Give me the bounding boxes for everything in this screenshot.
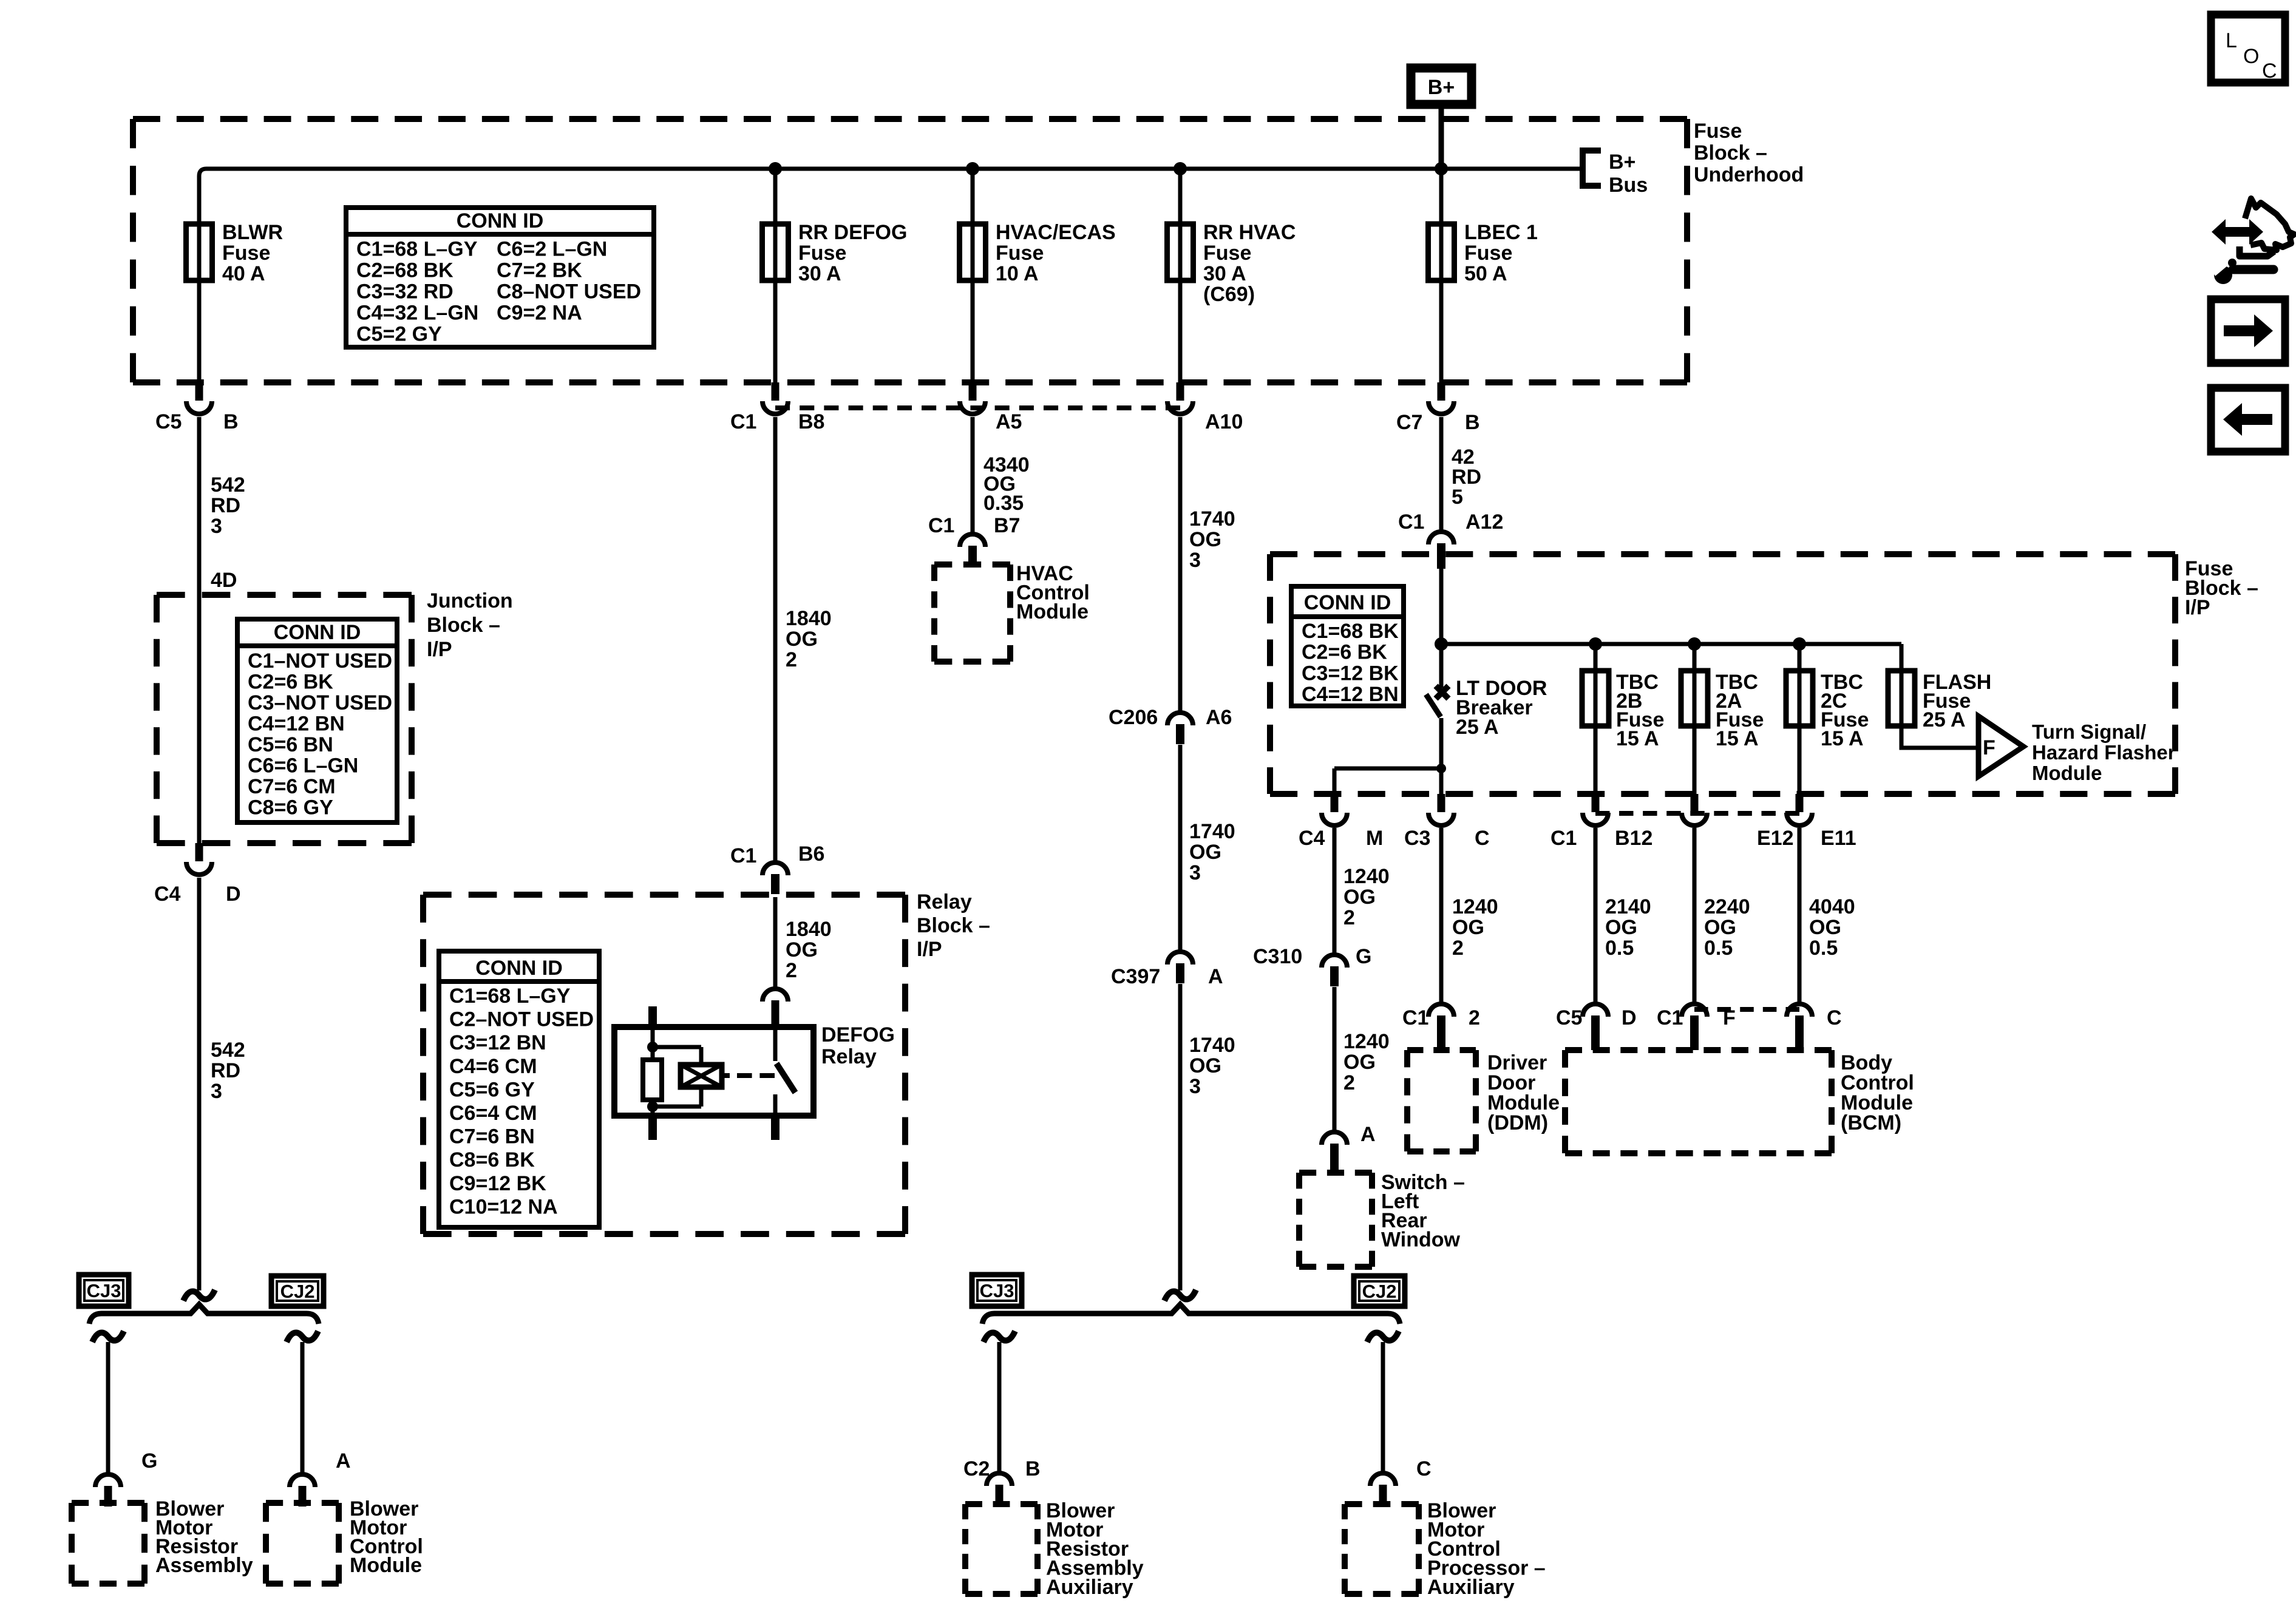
svg-text:CJ3: CJ3 — [980, 1280, 1014, 1301]
B+ bus line — [199, 169, 1580, 226]
svg-text:CONN ID: CONN ID — [457, 209, 544, 232]
svg-text:CONN ID: CONN ID — [274, 621, 361, 644]
svg-text:1240: 1240 — [1343, 1030, 1390, 1053]
svg-text:542: 542 — [211, 1039, 245, 1062]
svg-text:C: C — [1416, 1457, 1432, 1480]
wire 542 RD to splice — [197, 878, 202, 1290]
back arrow box (right margin) — [2211, 388, 2285, 452]
svg-text:D: D — [1622, 1006, 1637, 1029]
svg-text:A: A — [1360, 1123, 1376, 1146]
svg-text:OG: OG — [1704, 916, 1736, 939]
svg-text:542: 542 — [211, 473, 245, 497]
wire 2140 OG to BCM C5/D — [1594, 828, 1598, 1002]
svg-text:C1–NOT USED: C1–NOT USED — [248, 649, 392, 673]
connector C7/B at LBEC — [1428, 382, 1454, 414]
connector at DEFOG relay coil pin — [763, 989, 788, 1027]
svg-text:C: C — [1827, 1006, 1842, 1029]
svg-text:2: 2 — [1469, 1006, 1480, 1029]
svg-text:A5: A5 — [996, 410, 1022, 433]
svg-text:C5=2 GY: C5=2 GY — [356, 323, 442, 346]
CJ3 junction box (right splice) — [972, 1275, 1022, 1306]
wire 542 RD from C5/B to junction block — [197, 417, 202, 845]
svg-text:CJ3: CJ3 — [87, 1280, 121, 1301]
feed line inside I/P block — [1441, 642, 1901, 646]
svg-text:CJ2: CJ2 — [1362, 1281, 1397, 1302]
svg-text:B: B — [1465, 411, 1480, 434]
wire A12 into block — [1439, 564, 1444, 688]
svg-text:0.5: 0.5 — [1809, 937, 1838, 960]
FLASH fuse 25 A — [1901, 644, 1978, 748]
connector C1/B8 at RR DEFOG — [763, 382, 788, 414]
svg-text:C3: C3 — [1404, 827, 1430, 850]
svg-text:(DDM): (DDM) — [1487, 1111, 1548, 1134]
fuse BLWR 40 A — [186, 224, 212, 280]
CONN ID table - relay block — [439, 951, 599, 1227]
svg-text:OG: OG — [786, 938, 818, 961]
svg-text:5: 5 — [1452, 486, 1463, 509]
svg-text:Turn Signal/: Turn Signal/ — [2032, 720, 2146, 743]
svg-text:OG: OG — [1343, 886, 1376, 909]
svg-text:C5=6 GY: C5=6 GY — [449, 1078, 535, 1101]
svg-text:2240: 2240 — [1704, 895, 1750, 918]
svg-text:B+: B+ — [1428, 76, 1455, 99]
splice brace (right) — [982, 1304, 1400, 1324]
wire 1740 OG from A10 to C206 — [1178, 417, 1183, 711]
relay coil (box with X) — [681, 1065, 722, 1087]
svg-text:C7=6 BN: C7=6 BN — [449, 1125, 535, 1148]
svg-text:3: 3 — [1189, 549, 1201, 572]
wire fuse column — [1178, 169, 1183, 384]
fuse HVAC/ECAS 10 A — [960, 224, 986, 280]
svg-text:Block –: Block – — [427, 614, 500, 637]
connector C1/B12 below I/P block — [1583, 794, 1608, 825]
svg-text:M: M — [1366, 827, 1383, 850]
svg-text:Block –: Block – — [1694, 141, 1767, 164]
junction dot HVAC/ECAS — [966, 162, 979, 175]
fuse RR HVAC 30 A (C69) — [1167, 224, 1194, 280]
svg-text:C8=6 BK: C8=6 BK — [449, 1148, 535, 1171]
svg-text:3: 3 — [1189, 861, 1201, 884]
svg-text:(BCM): (BCM) — [1841, 1111, 1901, 1134]
svg-text:HVAC/ECAS: HVAC/ECAS — [996, 221, 1116, 244]
svg-text:C7=2 BK: C7=2 BK — [497, 259, 582, 282]
connector A10 at RR HVAC — [1167, 382, 1193, 414]
svg-text:4D: 4D — [211, 569, 237, 592]
svg-text:C5: C5 — [1556, 1006, 1582, 1029]
Blower Motor Resistor Assembly box — [72, 1503, 144, 1584]
B+ power feed box — [1411, 68, 1472, 104]
svg-text:RR HVAC: RR HVAC — [1203, 221, 1296, 244]
connector row dashed link B12-E12-E11 — [1595, 811, 1799, 816]
svg-text:Module: Module — [350, 1554, 422, 1577]
LOC reference box (top right) — [2211, 15, 2285, 83]
CONN ID table - I/P fuse block — [1291, 586, 1404, 706]
svg-text:OG: OG — [1605, 916, 1637, 939]
svg-text:C6=4 CM: C6=4 CM — [449, 1102, 537, 1125]
svg-text:B: B — [1025, 1457, 1041, 1480]
svg-text:F: F — [1983, 736, 1995, 759]
fuse LBEC 1 50 A — [1428, 224, 1455, 280]
CONN ID table - underhood fuse block — [346, 208, 654, 347]
svg-text:C1: C1 — [1550, 827, 1577, 850]
connector E11 below I/P block — [1787, 794, 1812, 825]
wire BLWR column — [197, 224, 202, 384]
relay pin stubs — [648, 1006, 657, 1027]
svg-text:B6: B6 — [798, 842, 824, 866]
svg-text:DEFOG: DEFOG — [821, 1023, 895, 1046]
splice hook at 542 wire — [183, 1290, 215, 1301]
wire 42 RD from C7/B — [1439, 417, 1444, 530]
CJ3 junction box (left splice) — [79, 1275, 129, 1306]
svg-text:Fuse: Fuse — [798, 242, 846, 265]
svg-text:Fuse: Fuse — [1464, 242, 1512, 265]
svg-text:C7=6 CM: C7=6 CM — [248, 775, 336, 798]
svg-text:30 A: 30 A — [798, 262, 841, 285]
svg-text:2: 2 — [1343, 1071, 1355, 1094]
svg-text:Block –: Block – — [917, 914, 990, 937]
svg-text:C1: C1 — [928, 514, 954, 537]
svg-text:C3–NOT USED: C3–NOT USED — [248, 691, 392, 714]
wire 1840 OG from B8 to C1/B6 — [773, 417, 778, 861]
svg-text:I/P: I/P — [2185, 596, 2210, 619]
svg-text:1840: 1840 — [786, 918, 832, 941]
junction dot at breaker column — [1435, 637, 1448, 651]
svg-text:Fuse: Fuse — [1203, 242, 1251, 265]
svg-text:RD: RD — [211, 494, 240, 517]
svg-text:A: A — [336, 1449, 351, 1473]
svg-text:C1: C1 — [1398, 510, 1424, 534]
svg-text:Fuse: Fuse — [1694, 120, 1742, 143]
CONN ID table - junction block — [237, 619, 397, 822]
svg-text:0.5: 0.5 — [1704, 937, 1733, 960]
splice brace (left) — [89, 1304, 319, 1324]
svg-text:Fuse: Fuse — [996, 242, 1044, 265]
Relay Block - I/P dashed boundary — [423, 895, 905, 1234]
svg-text:C2=6 BK: C2=6 BK — [248, 671, 333, 694]
svg-text:Relay: Relay — [821, 1045, 877, 1068]
svg-text:Module: Module — [1016, 600, 1089, 623]
svg-text:I/P: I/P — [427, 638, 452, 661]
svg-text:C8=6 GY: C8=6 GY — [248, 796, 333, 819]
connector G at blower motor resistor assembly — [95, 1474, 121, 1507]
svg-text:C9=12 BK: C9=12 BK — [449, 1172, 546, 1195]
svg-text:Module: Module — [2032, 762, 2102, 784]
relay coil branch wires — [653, 1045, 701, 1049]
branch hook to aux control processor — [1367, 1331, 1399, 1342]
svg-text:10 A: 10 A — [996, 262, 1039, 285]
HVAC Control Module box — [934, 564, 1010, 662]
CJ2 junction box (left splice) — [271, 1276, 324, 1306]
svg-text:C6=2 L–GN: C6=2 L–GN — [497, 238, 607, 261]
Junction Block - I/P dashed boundary — [157, 595, 412, 843]
relay resistor — [643, 1060, 662, 1100]
junction dot TBC 2C — [1793, 637, 1806, 651]
connector C5/B at BLWR — [186, 382, 212, 414]
svg-text:A12: A12 — [1466, 510, 1503, 534]
svg-text:Relay: Relay — [917, 890, 972, 914]
svg-text:C397: C397 — [1111, 965, 1160, 988]
svg-text:C4: C4 — [1299, 827, 1325, 850]
svg-text:4040: 4040 — [1809, 895, 1855, 918]
svg-text:E11: E11 — [1821, 827, 1856, 850]
svg-text:1740: 1740 — [1189, 1034, 1235, 1057]
svg-text:C5: C5 — [155, 410, 182, 433]
svg-text:15 A: 15 A — [1616, 727, 1659, 750]
connector C2/B at aux resistor — [987, 1473, 1012, 1505]
svg-text:C2=68 BK: C2=68 BK — [356, 259, 453, 282]
svg-text:Junction: Junction — [427, 589, 513, 612]
Driver Door Module (DDM) box — [1407, 1050, 1476, 1151]
svg-text:2: 2 — [1452, 937, 1464, 960]
Blower Motor Resistor Assembly Auxiliary box — [965, 1504, 1038, 1594]
svg-text:1840: 1840 — [786, 607, 832, 630]
svg-text:C4=12 BN: C4=12 BN — [1302, 683, 1399, 706]
svg-text:C310: C310 — [1253, 945, 1302, 968]
TBC 2C fuse — [1798, 644, 1802, 794]
svg-text:C5=6 BN: C5=6 BN — [248, 733, 333, 756]
branch hook to blower motor control module — [287, 1331, 318, 1342]
svg-text:25 A: 25 A — [1923, 708, 1966, 731]
relay linkage dashes — [722, 1073, 730, 1078]
svg-text:3: 3 — [211, 1080, 222, 1103]
Fuse Block - I/P dashed boundary — [1270, 554, 2175, 794]
wire 1240 OG to DDM — [1439, 828, 1444, 1002]
svg-text:3: 3 — [1189, 1075, 1201, 1098]
fuse RR DEFOG 30 A — [763, 224, 789, 280]
svg-text:15 A: 15 A — [1821, 727, 1864, 750]
Fuse Block - Underhood dashed boundary — [133, 119, 1687, 382]
svg-text:40 A: 40 A — [222, 262, 265, 285]
svg-text:OG: OG — [1809, 916, 1841, 939]
svg-text:A: A — [1208, 965, 1223, 988]
svg-text:OG: OG — [786, 628, 818, 651]
svg-text:A6: A6 — [1206, 706, 1232, 729]
svg-text:B7: B7 — [994, 514, 1020, 537]
branch hook to aux resistor — [983, 1331, 1015, 1342]
svg-text:C3=12 BN: C3=12 BN — [449, 1031, 546, 1054]
wire 4340 OG from A5 — [971, 417, 975, 532]
svg-text:CJ2: CJ2 — [280, 1281, 315, 1302]
Body Control Module (BCM) box — [1565, 1050, 1832, 1153]
svg-text:I/P: I/P — [917, 938, 942, 961]
svg-text:LBEC 1: LBEC 1 — [1464, 221, 1538, 244]
wire 4040 OG to BCM C — [1798, 828, 1802, 1002]
svg-text:B+: B+ — [1609, 151, 1635, 174]
svg-text:C4=6 CM: C4=6 CM — [449, 1055, 537, 1078]
svg-text:C206: C206 — [1109, 706, 1158, 729]
branch wire to G — [106, 1342, 110, 1474]
svg-text:Underhood: Underhood — [1694, 163, 1804, 186]
svg-text:OG: OG — [1452, 916, 1484, 939]
svg-text:CONN ID: CONN ID — [475, 957, 563, 980]
wire 2240 OG to BCM C1/F — [1693, 828, 1697, 1002]
svg-text:C9=2 NA: C9=2 NA — [497, 302, 582, 325]
connector C3/C below I/P block — [1428, 794, 1454, 825]
svg-text:C2–NOT USED: C2–NOT USED — [449, 1008, 594, 1031]
vehicle service icon (double arrow, outline, wrench) — [2210, 198, 2294, 284]
svg-text:B8: B8 — [798, 410, 824, 433]
svg-text:C1: C1 — [730, 844, 756, 867]
svg-text:1740: 1740 — [1189, 507, 1235, 531]
svg-text:15 A: 15 A — [1716, 727, 1759, 750]
wire B+ to bus — [1439, 109, 1444, 169]
svg-text:C10=12 NA: C10=12 NA — [449, 1195, 558, 1218]
wire 1240 OG to switch — [1333, 987, 1337, 1130]
svg-text:1240: 1240 — [1452, 895, 1498, 918]
relay switch — [773, 1027, 778, 1061]
wire fuse column — [1439, 169, 1444, 384]
svg-text:C8–NOT USED: C8–NOT USED — [497, 280, 641, 303]
LT DOOR breaker symbol — [1426, 686, 1449, 717]
svg-text:D: D — [226, 883, 241, 906]
connector row dashed link B8-A5-A10 — [775, 405, 1180, 410]
svg-text:RR DEFOG: RR DEFOG — [798, 221, 907, 244]
svg-text:OG: OG — [1189, 1054, 1221, 1077]
connector E12 below I/P block — [1682, 794, 1707, 825]
svg-text:Window: Window — [1381, 1229, 1461, 1252]
CJ2 junction box (right splice) — [1354, 1276, 1405, 1306]
svg-text:C4: C4 — [154, 883, 181, 906]
connector A at blower motor control module — [290, 1474, 315, 1507]
svg-text:C4=32 L–GN: C4=32 L–GN — [356, 302, 478, 325]
svg-text:OG: OG — [1189, 528, 1221, 551]
wire into relay block — [773, 897, 778, 988]
wire below breaker — [1439, 718, 1444, 794]
svg-text:1740: 1740 — [1189, 820, 1235, 843]
svg-text:C1: C1 — [730, 410, 756, 433]
svg-text:OG: OG — [1343, 1051, 1376, 1074]
connector C4/D below junction block — [186, 843, 212, 875]
connector C4/M below I/P block — [1322, 794, 1347, 825]
svg-text:50 A: 50 A — [1464, 262, 1507, 285]
svg-text:BLWR: BLWR — [222, 221, 283, 244]
svg-text:2140: 2140 — [1605, 895, 1651, 918]
junction dot LBEC — [1435, 162, 1448, 175]
svg-text:A10: A10 — [1205, 410, 1243, 433]
wire fuse column — [971, 169, 975, 384]
svg-text:0.5: 0.5 — [1605, 937, 1634, 960]
junction dot TBC 2A — [1688, 637, 1701, 651]
svg-text:C7: C7 — [1396, 411, 1422, 434]
svg-text:(C69): (C69) — [1203, 283, 1255, 306]
svg-text:Auxiliary: Auxiliary — [1046, 1576, 1133, 1599]
wire fuse column — [773, 169, 778, 384]
forward arrow box (right margin) — [2211, 299, 2285, 363]
svg-text:G: G — [141, 1449, 157, 1473]
svg-text:G: G — [1356, 945, 1371, 968]
svg-text:C4=12 BN: C4=12 BN — [248, 713, 345, 736]
svg-text:2: 2 — [1343, 906, 1355, 929]
branch hook to blower motor resistor — [92, 1331, 124, 1342]
svg-text:C6=6 L–GN: C6=6 L–GN — [248, 754, 358, 778]
junction dot TBC 2B — [1589, 637, 1602, 651]
svg-text:L: L — [2226, 29, 2237, 52]
svg-text:2: 2 — [786, 648, 797, 671]
svg-text:B12: B12 — [1615, 827, 1652, 850]
svg-text:C1=68 L–GY: C1=68 L–GY — [356, 238, 478, 261]
svg-text:C: C — [2262, 59, 2277, 83]
svg-text:C2=6 BK: C2=6 BK — [1302, 641, 1387, 664]
svg-text:2: 2 — [786, 959, 797, 982]
svg-text:Hazard Flasher: Hazard Flasher — [2032, 741, 2176, 764]
svg-text:C3=32 RD: C3=32 RD — [356, 280, 453, 303]
B+ Bus tap symbol — [1583, 151, 1601, 186]
Blower Motor Control Processor Auxiliary box — [1345, 1504, 1419, 1594]
TBC 2B fuse — [1594, 644, 1598, 794]
svg-text:1240: 1240 — [1343, 865, 1390, 888]
branch wire to A — [301, 1342, 305, 1474]
svg-text:3: 3 — [211, 515, 222, 538]
svg-text:C3=12 BK: C3=12 BK — [1302, 662, 1399, 685]
svg-text:C1=68 L–GY: C1=68 L–GY — [449, 985, 571, 1008]
svg-text:Auxiliary: Auxiliary — [1427, 1576, 1515, 1599]
connector A5 at HVAC/ECAS — [960, 382, 985, 414]
junction dot RR HVAC — [1173, 162, 1187, 175]
wire 1240 OG to C310 — [1333, 828, 1337, 953]
svg-text:CONN ID: CONN ID — [1304, 591, 1391, 614]
svg-text:C1: C1 — [1657, 1006, 1683, 1029]
svg-text:C: C — [1475, 827, 1490, 850]
Blower Motor Control Module box — [266, 1503, 339, 1584]
svg-text:C2: C2 — [963, 1457, 990, 1480]
jog wire to C4/M leg — [1334, 767, 1441, 771]
junction dot at jog — [1436, 764, 1446, 773]
DEFOG relay box — [614, 1027, 813, 1116]
svg-text:B: B — [223, 410, 239, 433]
svg-text:OG: OG — [1189, 841, 1221, 864]
svg-text:0.35: 0.35 — [983, 492, 1024, 515]
splice hook at 1740 wire — [1164, 1290, 1196, 1301]
svg-text:30 A: 30 A — [1203, 262, 1246, 285]
svg-text:Fuse: Fuse — [222, 242, 270, 265]
dashed link between BCM connectors — [1694, 1007, 1799, 1012]
relay internal wire and junctions — [651, 1027, 655, 1060]
svg-text:Assembly: Assembly — [155, 1554, 253, 1577]
connector C at aux control processor — [1370, 1473, 1396, 1505]
TBC 2A fuse — [1693, 644, 1697, 794]
svg-text:O: O — [2243, 45, 2259, 68]
svg-text:Bus: Bus — [1609, 174, 1648, 197]
svg-text:RD: RD — [211, 1059, 240, 1082]
junction dot RR DEFOG — [769, 162, 782, 175]
svg-text:E12: E12 — [1757, 827, 1794, 850]
svg-text:25 A: 25 A — [1456, 716, 1499, 739]
wire to C397 — [1178, 745, 1183, 950]
svg-text:C1: C1 — [1402, 1006, 1428, 1029]
wire to aux splice — [1178, 984, 1183, 1290]
svg-text:C1=68 BK: C1=68 BK — [1302, 620, 1399, 643]
F flasher feed triangle — [1978, 716, 2023, 776]
Switch - Left Rear Window box — [1299, 1173, 1372, 1267]
